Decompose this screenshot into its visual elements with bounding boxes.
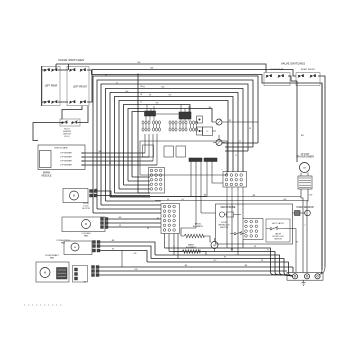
wire down to transformer [296, 81, 298, 162]
svg-text:TOP BURNER: TOP BURNER [60, 165, 72, 167]
wire bridge 4 [106, 89, 244, 202]
wire labelled drop [138, 74, 150, 194]
wires spark outputs [84, 153, 158, 165]
valve switch S3 contacts [44, 100, 58, 104]
svg-text:MOTOR: MOTOR [82, 208, 90, 210]
wire ladder L1 [165, 248, 292, 275]
wire broil feed [181, 228, 211, 242]
scan dots [24, 305, 61, 306]
door interlock switch S8 [230, 232, 245, 236]
wire bridge 10 [132, 112, 144, 178]
svg-text:W: W [105, 74, 107, 76]
transformer T1 [298, 163, 312, 190]
wire bridge 8 [124, 105, 191, 186]
svg-text:W: W [249, 128, 251, 130]
connector bar J4 [204, 158, 217, 162]
broil element label [193, 224, 204, 229]
svg-text:HIGH VOLTAGE: HIGH VOLTAGE [54, 147, 68, 150]
svg-text:AUTO LATCH: AUTO LATCH [272, 222, 284, 225]
wire long feed upper [150, 196, 301, 198]
motor MF [211, 238, 218, 252]
cooling fan label [81, 233, 91, 238]
ground symbol [302, 280, 306, 285]
svg-text:M: M [74, 247, 76, 249]
wires door lock to board [97, 191, 207, 197]
wire bus N2 [99, 270, 287, 272]
wire between row1 switches [58, 69, 68, 71]
svg-text:W: W [147, 228, 149, 230]
svg-text:W: W [119, 225, 121, 227]
door interlock switch label [218, 222, 230, 229]
svg-text:LEFT REAR: LEFT REAR [45, 85, 58, 88]
wire ladder L2 [169, 252, 292, 276]
down draft fan M4 [36, 262, 69, 282]
svg-text:M: M [44, 272, 46, 275]
wire bars link [156, 113, 180, 115]
relay K2 [164, 146, 174, 157]
svg-text:W: W [254, 246, 256, 248]
wire bridge 1 [93, 76, 258, 213]
wire drop x122 [121, 251, 123, 268]
svg-text:MODULE: MODULE [42, 176, 52, 178]
terminal L1 [292, 274, 297, 279]
bake element R2 [179, 250, 206, 254]
wire bus C under right switches to right edge [92, 75, 323, 271]
broil element R1 [181, 234, 210, 238]
igniter E5 [189, 121, 197, 131]
down draft contacts [92, 266, 100, 277]
wire igniter switch right jog [78, 106, 88, 123]
oven sensor RT1 [293, 210, 311, 216]
svg-text:W: W [229, 120, 231, 122]
svg-text:TOP BURNER: TOP BURNER [60, 153, 72, 155]
bake element label [186, 244, 197, 250]
wires right edge into L2 [320, 267, 326, 275]
svg-text:W: W [112, 249, 114, 251]
wire transformer secondary leads [301, 189, 308, 273]
svg-text:SWITCH: SWITCH [274, 239, 282, 241]
valve switch S4 contacts [69, 100, 86, 104]
svg-text:LEFT FRONT: LEFT FRONT [73, 87, 88, 89]
down draft fan label [45, 254, 59, 260]
relay K3 [176, 146, 186, 157]
wire right rear output step [288, 76, 297, 81]
wires into meat probe box [201, 213, 296, 273]
svg-text:W: W [149, 95, 151, 97]
wire right edge vertical pair [322, 83, 325, 270]
svg-text:FAN: FAN [61, 241, 65, 244]
igniter E4 [179, 121, 187, 131]
svg-text:SPARK: SPARK [43, 172, 51, 175]
wire step down to igniter switch [62, 106, 82, 120]
door lock motor M1 [63, 189, 88, 203]
wire long feed lower [155, 200, 308, 202]
svg-text:OVEN SENSOR: OVEN SENSOR [296, 206, 314, 209]
wire ladder L5 [147, 262, 293, 276]
wires cooling fan to P2 [108, 219, 161, 227]
wire ladder L3 [155, 255, 292, 276]
meat probe jack J5 [219, 212, 241, 217]
small box LT [203, 127, 213, 136]
transformer label [296, 154, 314, 159]
spark module label [42, 172, 52, 178]
wire ladder L4 [151, 259, 293, 277]
wire bridge 5 [110, 93, 238, 198]
cooling fan contacts [101, 218, 109, 229]
door lock contacts [90, 190, 98, 198]
small component column [197, 116, 203, 135]
svg-text:12 VOLT: 12 VOLT [300, 154, 310, 156]
svg-text:RIGHT FRONT: RIGHT FRONT [301, 69, 316, 71]
svg-text:W: W [141, 94, 143, 96]
terminal L2 [315, 274, 320, 279]
wires spark risers [145, 134, 157, 165]
svg-text:M: M [85, 223, 87, 226]
drop line labels [141, 86, 144, 104]
wire bridge 6 [115, 97, 234, 194]
igniter E2 [152, 121, 160, 131]
convection fan label [56, 240, 70, 245]
wire bus A to right rear valve switch [56, 64, 266, 73]
meat probe box outline [216, 204, 293, 244]
latch switch group S9 [266, 219, 290, 242]
relay K1 [143, 145, 154, 157]
svg-text:M: M [73, 195, 75, 198]
connector P2 [161, 204, 180, 234]
wires bar risers [147, 105, 189, 113]
wires under bars [191, 162, 223, 229]
wire bridge 3 [101, 84, 248, 205]
wire bridge 2 [97, 80, 253, 209]
wires into connector P2 upper [93, 197, 161, 213]
oven lamp 1 [216, 119, 222, 125]
convection fan contacts [93, 241, 101, 253]
svg-text:W: W [167, 199, 169, 201]
relay beside down draft [73, 266, 88, 284]
valve switch S7 right front [296, 73, 320, 86]
wire bus N3 [99, 274, 287, 276]
svg-text:(N.O.): (N.O.) [64, 136, 70, 138]
svg-text:TRANSFORMER: TRANSFORMER [296, 156, 314, 159]
cooling fan M2 [62, 217, 105, 232]
igniter E1 [142, 121, 150, 131]
wire between row2 switches [58, 101, 68, 103]
connector bar J1 [145, 111, 156, 116]
door lock motor label [82, 203, 90, 210]
wire right front output [318, 76, 325, 90]
oven lamp 2 [216, 140, 222, 146]
wire S2 out right [87, 70, 92, 75]
wire row1 to bus A [56, 64, 69, 70]
igniter E3 [169, 121, 177, 131]
wire igniter switch to spark module [33, 123, 62, 141]
wire bridge 7 [119, 101, 228, 190]
wire left rail [42, 66, 45, 106]
wires convection fan to buses [100, 242, 155, 262]
terminal block strip [287, 273, 323, 281]
connector P4 [243, 219, 263, 240]
svg-text:W: W [109, 163, 111, 165]
connector P1 [149, 168, 165, 194]
control board outline [140, 141, 227, 175]
wires meat box through-drops [227, 204, 243, 255]
svg-text:TOP BURNER: TOP BURNER [60, 161, 72, 163]
svg-text:VALVE SWITCHES: VALVE SWITCHES [281, 62, 305, 66]
wires P2 drops [165, 234, 179, 259]
spark module box [38, 145, 85, 170]
svg-text:W: W [261, 260, 263, 262]
svg-text:TOP BURNER: TOP BURNER [60, 157, 72, 159]
svg-text:W: W [296, 242, 298, 244]
wire right fan to lamp row [222, 143, 258, 151]
connector bar J2 [179, 112, 191, 119]
wires grid3 to box [227, 187, 243, 204]
svg-text:W: W [224, 256, 226, 258]
convection fan M3 [64, 241, 92, 255]
wires lamp area [199, 131, 225, 143]
svg-text:ELEMENT: ELEMENT [186, 247, 197, 249]
wires into connector P1 [115, 177, 151, 193]
wire labels [95, 74, 313, 267]
svg-text:MEAT PROBE: MEAT PROBE [221, 206, 236, 209]
terminal N [304, 274, 309, 279]
wire lamp1 feed [212, 121, 258, 123]
wires bars to igniters [146, 116, 189, 121]
valve switch S2 left front [67, 67, 89, 106]
svg-text:FAN: FAN [50, 257, 54, 260]
connector P3 [223, 172, 247, 188]
wire bridge 9 [128, 109, 212, 182]
igniter switch text [63, 129, 71, 139]
wire bus N1 [99, 267, 293, 273]
connector bar J3 [189, 158, 202, 162]
svg-text:FAN: FAN [84, 234, 88, 237]
wire bake feeds [174, 252, 206, 256]
wire row2 to bus B [87, 70, 92, 103]
wire bus B to right front valve switch [92, 70, 296, 77]
valve switch S6 right rear [264, 73, 290, 86]
valve switch S1 left rear [42, 67, 60, 106]
igniter switch S5 [60, 119, 80, 126]
svg-text:RIGHT REAR: RIGHT REAR [271, 68, 284, 71]
svg-text:VALVE SWITCHES: VALVE SWITCHES [58, 58, 84, 62]
